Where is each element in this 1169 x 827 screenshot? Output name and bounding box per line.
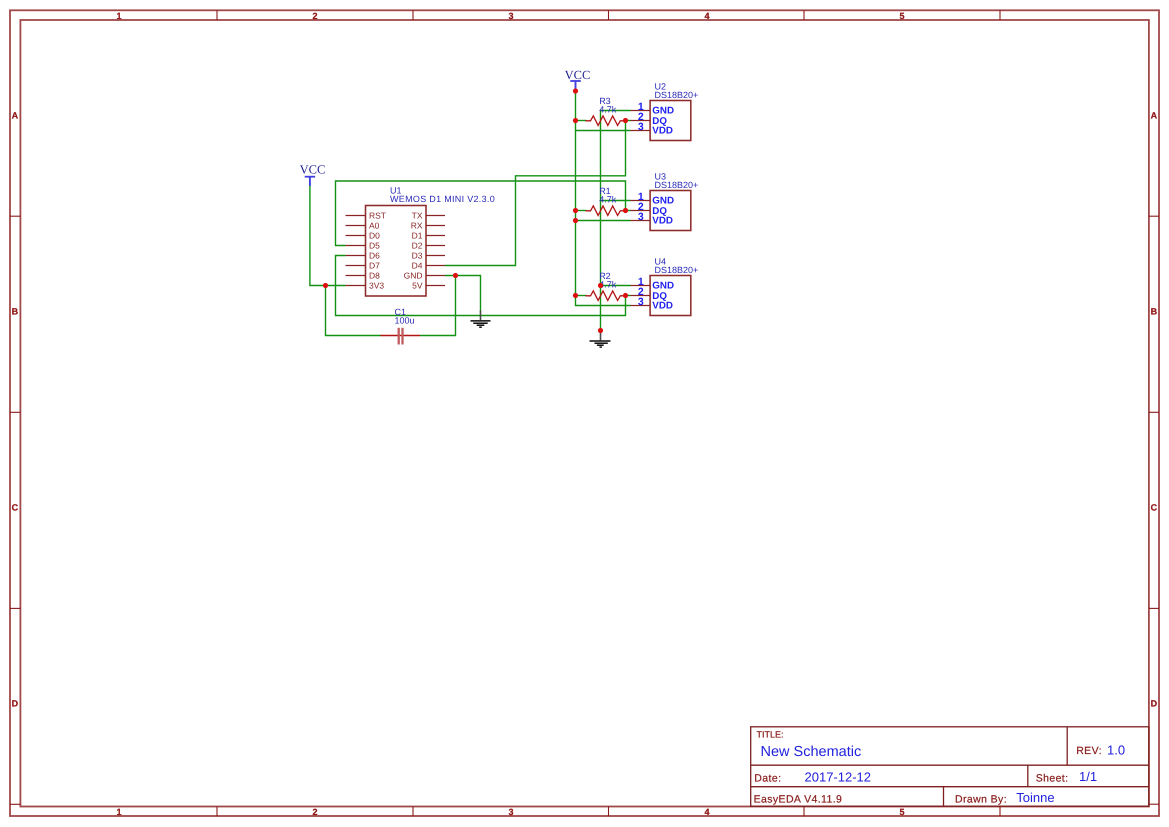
svg-text:D0: D0 <box>369 231 380 241</box>
wire R3 right stub to U2.DQ <box>625 120 631 122</box>
svg-text:2017-12-12: 2017-12-12 <box>805 769 872 784</box>
svg-text:100u: 100u <box>395 316 415 326</box>
wire D4 net: U1.D4 to U2.DQ <box>445 121 626 266</box>
IC U3 DS18B20+ <box>631 172 699 231</box>
junction GND bus at U4 GND <box>598 283 603 288</box>
svg-text:A: A <box>12 111 19 121</box>
IC U1 WEMOS D1 MINI V2.3.0 <box>346 186 496 296</box>
svg-text:D6: D6 <box>369 251 380 261</box>
wire VCC rail vertical x=575 from VCC flag to R2 left, then to U4 VDD <box>576 91 631 306</box>
ground symbol (near U1 GND) <box>471 311 491 328</box>
svg-text:DS18B20+: DS18B20+ <box>655 90 699 100</box>
wire D5 net: U1.D5 to U3.DQ <box>336 181 626 246</box>
U2 pin names GND DQ VDD <box>652 106 674 137</box>
junction 3V3 <box>323 283 328 288</box>
svg-text:New Schematic: New Schematic <box>761 744 862 760</box>
svg-text:2: 2 <box>312 11 317 21</box>
svg-text:D4: D4 <box>412 261 423 271</box>
svg-text:Toinne: Toinne <box>1016 790 1054 805</box>
svg-text:GND: GND <box>404 271 423 281</box>
svg-text:B: B <box>12 307 19 317</box>
U3 body <box>650 191 691 231</box>
svg-text:VDD: VDD <box>652 125 673 136</box>
wire R1 left stub <box>576 210 587 212</box>
resistor R3 <box>586 96 626 125</box>
U4 pin numbers 1 2 3 <box>638 276 644 308</box>
U1 body <box>366 206 427 297</box>
U3 pin numbers 1 2 3 <box>638 191 644 223</box>
junction R2 right / U4 DQ <box>623 293 628 298</box>
svg-text:B: B <box>1151 307 1158 317</box>
VCC netflag (left) <box>300 162 326 186</box>
svg-text:5V: 5V <box>412 281 423 291</box>
ground symbol (bottom, sensors GND) <box>590 331 611 348</box>
wire D6 net: U1.D6 to U4.DQ <box>336 256 626 316</box>
svg-text:VDD: VDD <box>652 215 673 226</box>
wire 3V3 junction down to C1 left <box>326 286 382 336</box>
wire R3 left stub <box>576 120 587 122</box>
svg-text:3: 3 <box>638 211 644 223</box>
junction dots <box>323 88 628 333</box>
svg-text:A: A <box>1151 111 1158 121</box>
svg-text:4: 4 <box>704 807 709 817</box>
resistor R2 <box>586 271 626 300</box>
junction U3 VDD <box>573 218 578 223</box>
wire U1.GND to earth ground <box>445 276 481 312</box>
svg-text:1.0: 1.0 <box>1107 742 1125 757</box>
wire R1 right stub to U3.DQ <box>625 210 631 212</box>
svg-text:DS18B20+: DS18B20+ <box>655 265 699 275</box>
svg-text:3: 3 <box>508 11 513 21</box>
U3 pin names GND DQ VDD <box>652 196 674 227</box>
IC U2 DS18B20+ <box>631 82 699 141</box>
svg-text:1/1: 1/1 <box>1079 769 1097 784</box>
U1 left pin names RST A0 D0 D5 D6 D7 D8 3V3 <box>369 211 386 291</box>
U4 body <box>650 276 691 316</box>
svg-text:WEMOS D1 MINI V2.3.0: WEMOS D1 MINI V2.3.0 <box>390 194 495 204</box>
svg-text:C: C <box>12 503 19 513</box>
resistor R1 <box>586 186 626 215</box>
svg-text:EasyEDA V4.11.9: EasyEDA V4.11.9 <box>754 794 843 806</box>
svg-text:Date:: Date: <box>754 772 781 784</box>
svg-text:2: 2 <box>312 807 317 817</box>
svg-text:REV:: REV: <box>1076 745 1102 757</box>
svg-text:C: C <box>1151 503 1158 513</box>
svg-text:5: 5 <box>899 807 904 817</box>
svg-text:D2: D2 <box>412 241 423 251</box>
capacitor C1 <box>381 307 421 344</box>
svg-text:A0: A0 <box>369 221 380 231</box>
svg-text:3: 3 <box>508 807 513 817</box>
wire left VCC to U1.3V3 <box>310 185 346 286</box>
wire R2 left stub <box>576 295 587 297</box>
svg-text:D1: D1 <box>412 231 423 241</box>
svg-text:RST: RST <box>369 211 386 221</box>
junction R1 right / U3 DQ <box>623 208 628 213</box>
junction R2 left <box>573 293 578 298</box>
svg-text:D3: D3 <box>412 251 423 261</box>
U2 body <box>650 101 691 141</box>
title block <box>751 727 1149 806</box>
wire U3 VDD y=220 <box>576 220 631 222</box>
junction at VCC top <box>573 88 578 93</box>
junction R3 left <box>573 118 578 123</box>
svg-text:4: 4 <box>704 11 709 21</box>
U1 right pin names TX RX D1 D2 D3 D4 GND 5V <box>404 211 423 291</box>
IC U4 DS18B20+ <box>631 257 699 316</box>
junction R1 left <box>573 208 578 213</box>
wire U3 GND stub y=200 <box>601 200 631 202</box>
wire U2 VDD y=130 <box>576 130 631 132</box>
svg-text:DS18B20+: DS18B20+ <box>655 180 699 190</box>
U2 pin numbers 1 2 3 <box>638 101 644 133</box>
U4 pin leads <box>631 286 651 306</box>
svg-text:D: D <box>12 699 19 709</box>
wire GND bus: U2 GND pin across down to ground, x=600 <box>601 111 631 331</box>
junction at bottom ground <box>598 328 603 333</box>
svg-text:VDD: VDD <box>652 300 673 311</box>
svg-text:VCC: VCC <box>300 162 326 176</box>
svg-text:Sheet:: Sheet: <box>1036 772 1069 784</box>
junction U1 GND <box>453 273 458 278</box>
svg-text:4.7k: 4.7k <box>599 195 617 205</box>
svg-text:D8: D8 <box>369 271 380 281</box>
svg-text:TITLE:: TITLE: <box>757 729 784 739</box>
svg-text:3: 3 <box>638 296 644 308</box>
svg-text:3V3: 3V3 <box>369 281 384 291</box>
U2 pin leads <box>631 111 651 131</box>
wire C1 right to GND net riser <box>420 276 456 336</box>
junction R3 right / U2 DQ <box>623 118 628 123</box>
wire R2 right stub to U4.DQ <box>625 295 631 297</box>
VCC netflag (top) <box>565 68 591 90</box>
svg-text:1: 1 <box>116 11 121 21</box>
U1 pin leads <box>346 216 446 286</box>
svg-text:D5: D5 <box>369 241 380 251</box>
svg-text:1: 1 <box>116 807 121 817</box>
svg-text:TX: TX <box>412 211 423 221</box>
wire U4 GND stub y=285 <box>601 285 631 287</box>
svg-text:Drawn By:: Drawn By: <box>955 794 1007 806</box>
U3 pin leads <box>631 201 651 221</box>
svg-text:D7: D7 <box>369 261 380 271</box>
U4 pin names GND DQ VDD <box>652 281 674 312</box>
svg-text:3: 3 <box>638 121 644 133</box>
svg-text:5: 5 <box>899 11 904 21</box>
svg-text:4.7k: 4.7k <box>599 105 617 115</box>
svg-text:RX: RX <box>411 221 423 231</box>
svg-text:D: D <box>1151 699 1158 709</box>
